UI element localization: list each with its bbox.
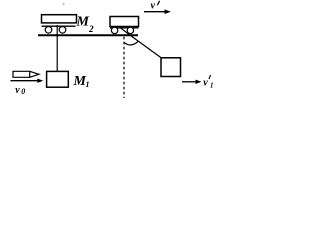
svg-text:M: M <box>73 74 87 89</box>
svg-text:v: v <box>15 85 20 96</box>
svg-text:v: v <box>203 77 208 88</box>
svg-text:2: 2 <box>88 24 94 34</box>
svg-text:1: 1 <box>86 80 90 89</box>
svg-text:v: v <box>151 0 156 11</box>
svg-text:0: 0 <box>21 87 25 96</box>
svg-text:M: M <box>76 15 90 30</box>
svg-text:1: 1 <box>210 81 214 89</box>
